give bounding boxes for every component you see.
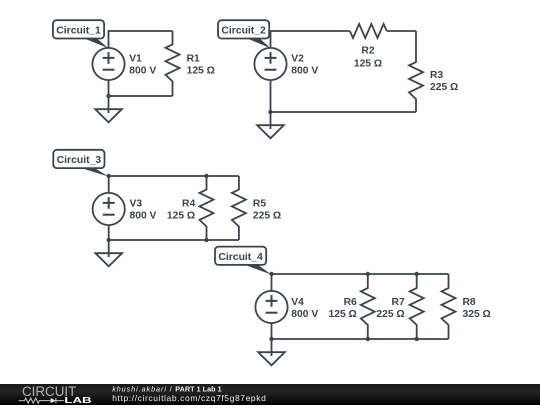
svg-text:125 Ω: 125 Ω: [187, 66, 215, 77]
svg-text:http://circuitlab.com/czq7f5g8: http://circuitlab.com/czq7f5g87epkd: [112, 393, 266, 403]
wire C1 top rail: [109, 31, 173, 48]
resistor R1: [166, 31, 180, 96]
label V4 value: [291, 297, 318, 320]
label R3 value: [430, 70, 458, 93]
svg-text:800 V: 800 V: [291, 309, 318, 320]
svg-text:800 V: 800 V: [130, 211, 157, 222]
junction dot: [107, 174, 111, 178]
svg-text:V2: V2: [291, 54, 304, 65]
label R5 value: [253, 199, 281, 222]
svg-text:800 V: 800 V: [291, 66, 318, 77]
resistor R6: [361, 274, 375, 339]
ground: [95, 240, 122, 266]
junction dot: [204, 238, 208, 242]
junction dot: [415, 272, 419, 276]
svg-text:Circuit_3: Circuit_3: [57, 155, 102, 166]
svg-text:R4: R4: [182, 199, 195, 210]
ground: [95, 96, 122, 122]
svg-text:R1: R1: [187, 54, 200, 65]
svg-text:Circuit_4: Circuit_4: [218, 252, 263, 263]
junction dot: [268, 110, 272, 114]
ground: [257, 112, 284, 138]
label R7 value: [376, 297, 405, 320]
junction dot: [366, 272, 370, 276]
label V1 value: [129, 54, 156, 77]
logo diode triangle: [51, 398, 56, 403]
svg-text:125 Ω: 125 Ω: [354, 58, 382, 69]
label R8 value: [463, 297, 491, 320]
svg-text:R6: R6: [344, 297, 357, 308]
flag label Circuit_4: [215, 247, 272, 275]
logo resistor-diode wire: [19, 398, 64, 403]
junction dot: [107, 238, 111, 242]
label R4 value: [167, 199, 196, 222]
flag label Circuit_1: [53, 20, 109, 48]
svg-text:325 Ω: 325 Ω: [463, 309, 491, 320]
svg-text:Circuit_2: Circuit_2: [221, 26, 266, 37]
wire C3 bottom rail: [109, 225, 239, 240]
wire C3 top rail: [109, 176, 239, 193]
svg-text:125 Ω: 125 Ω: [167, 211, 195, 222]
svg-text:800 V: 800 V: [129, 66, 156, 77]
junction dot: [269, 337, 273, 341]
resistor R5: [232, 176, 246, 240]
wire C2 top rail right: [387, 30, 416, 32]
label V3 value: [130, 199, 157, 222]
label V2 value: [291, 54, 318, 77]
svg-text:R2: R2: [361, 46, 374, 57]
resistor R7: [410, 274, 424, 339]
svg-text:khushi.akbari / PART 1 Lab 1: khushi.akbari / PART 1 Lab 1: [112, 384, 222, 393]
wire C4 bottom rail: [272, 323, 449, 339]
svg-text:R7: R7: [392, 297, 405, 308]
voltage source V2: [254, 48, 286, 80]
voltage source V3: [93, 193, 125, 225]
svg-text:R3: R3: [430, 70, 443, 81]
svg-text:R8: R8: [463, 297, 476, 308]
resistor R8: [442, 274, 456, 339]
wire C4 top rail: [272, 274, 449, 291]
label R2 value: [354, 46, 382, 70]
voltage source V1: [92, 48, 124, 80]
resistor R2: [350, 24, 387, 38]
svg-text:V1: V1: [129, 54, 142, 65]
svg-text:LAB: LAB: [64, 396, 91, 405]
wire C1 bottom rail: [109, 80, 173, 96]
junction dot: [106, 94, 110, 98]
svg-text:V4: V4: [291, 297, 304, 308]
junction dot: [204, 174, 208, 178]
wire C2 top rail left: [271, 31, 350, 48]
svg-text:Circuit_1: Circuit_1: [56, 26, 101, 37]
label R6 value: [329, 297, 358, 320]
resistor R4: [200, 176, 214, 240]
flag label Circuit_2: [218, 20, 271, 48]
svg-text:225 Ω: 225 Ω: [253, 211, 281, 222]
svg-text:125 Ω: 125 Ω: [329, 309, 357, 320]
flag label Circuit_3: [53, 150, 108, 177]
svg-text:V3: V3: [130, 199, 143, 210]
ground: [258, 339, 285, 365]
label R1 value: [187, 54, 215, 77]
junction dot: [415, 337, 419, 341]
svg-text:225 Ω: 225 Ω: [376, 309, 404, 320]
resistor R3: [409, 31, 423, 112]
voltage source V4: [255, 291, 287, 323]
junction dot: [366, 337, 370, 341]
svg-text:R5: R5: [253, 199, 266, 210]
junction dot: [269, 272, 273, 276]
wire C2 bottom rail: [271, 80, 417, 112]
svg-text:225 Ω: 225 Ω: [430, 82, 458, 93]
